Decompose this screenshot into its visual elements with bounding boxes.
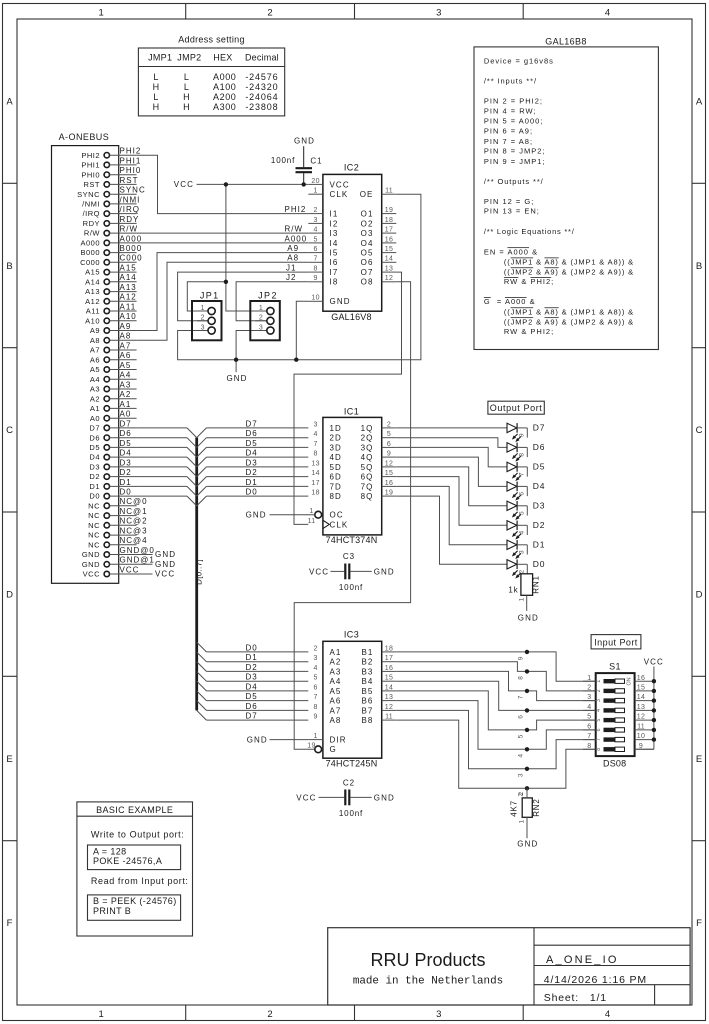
svg-text:7: 7	[313, 441, 317, 448]
svg-text:15: 15	[385, 675, 393, 682]
svg-text:PHI1: PHI1	[120, 156, 142, 165]
svg-text:2: 2	[313, 207, 317, 214]
svg-text:12: 12	[637, 714, 645, 721]
svg-text:3: 3	[313, 217, 317, 224]
wire IC3 B7 to RN2 pin 3 to S1 pin 7	[396, 710, 595, 768]
connector pin A4 / net A4	[90, 371, 137, 384]
svg-text:/** Inputs **/: /** Inputs **/	[484, 76, 537, 85]
svg-text:4: 4	[313, 431, 317, 438]
svg-text:VCC: VCC	[83, 570, 100, 579]
svg-text:5Q: 5Q	[361, 463, 374, 472]
wire bus exit to IC3 A1 / net D0	[197, 642, 309, 652]
connector pin PHI2 / net PHI2	[81, 147, 141, 160]
connector pin A7 / net A7	[90, 341, 137, 354]
power VCC flag and rail to IC2 pin20	[174, 180, 309, 189]
svg-text:B: B	[6, 261, 12, 272]
svg-text:9: 9	[518, 433, 525, 437]
connector pin D3 / net D3	[89, 458, 136, 471]
svg-text:6: 6	[518, 492, 525, 496]
svg-text:B: B	[696, 261, 702, 272]
svg-text:C000: C000	[120, 254, 143, 263]
svg-text:D7: D7	[89, 424, 100, 433]
connector pin A6 / net A6	[90, 351, 137, 364]
svg-text:1: 1	[518, 820, 525, 824]
resistor network RN1 pin 4	[517, 525, 527, 535]
svg-text:ON: ON	[627, 677, 633, 685]
svg-text:B5: B5	[362, 687, 374, 696]
svg-text:RW & PHI2;: RW & PHI2;	[504, 277, 554, 286]
svg-text:/** Outputs **/: /** Outputs **/	[484, 177, 544, 186]
connector pin RST / net RST	[84, 176, 139, 189]
connector pin NC / net NC@3	[88, 527, 147, 540]
connector pin NC / net NC@0	[88, 497, 147, 510]
svg-text:D[0..7]: D[0..7]	[194, 559, 203, 585]
connector pin A0 / net A0	[90, 410, 137, 423]
LED D2	[507, 520, 545, 539]
svg-text:D4: D4	[89, 453, 100, 462]
svg-text:74HCT374N: 74HCT374N	[326, 535, 378, 545]
svg-text:D0: D0	[533, 559, 545, 569]
svg-text:9: 9	[387, 451, 391, 458]
svg-text:A-ONEBUS: A-ONEBUS	[59, 132, 110, 142]
svg-text:2: 2	[267, 7, 272, 18]
connector pin A3 / net A3	[90, 380, 137, 393]
svg-text:GAL16V8: GAL16V8	[331, 312, 371, 322]
svg-text:Device = g16v8s: Device = g16v8s	[484, 56, 554, 65]
svg-text:PIN 7 = A8;: PIN 7 = A8;	[484, 137, 533, 146]
svg-text:GND@1: GND@1	[120, 556, 155, 565]
svg-text:100nf: 100nf	[271, 156, 295, 165]
svg-text:I6: I6	[330, 258, 339, 267]
svg-text:A000: A000	[120, 234, 143, 243]
svg-text:O1: O1	[361, 210, 374, 219]
svg-text:1: 1	[518, 597, 525, 601]
connector pin /IRQ / net /IRQ	[83, 205, 140, 218]
svg-text:D5: D5	[533, 462, 545, 472]
svg-text:VCC: VCC	[120, 565, 140, 574]
svg-text:2: 2	[387, 421, 391, 428]
svg-text:18: 18	[311, 490, 319, 497]
svg-text:I8: I8	[330, 278, 339, 287]
connector pin A15 / net A15	[85, 264, 137, 277]
connector pin D6 / net D6	[89, 429, 136, 442]
wire A9 net	[137, 244, 309, 331]
svg-text:((JMP2 & A9) & (JMP2 & A9)) &: ((JMP2 & A9) & (JMP2 & A9)) &	[504, 267, 634, 276]
svg-text:17: 17	[311, 480, 319, 487]
svg-text:RN1: RN1	[532, 575, 541, 593]
svg-text:15: 15	[385, 470, 393, 477]
svg-text:3: 3	[436, 1009, 441, 1020]
svg-text:D7: D7	[533, 423, 545, 433]
svg-text:14: 14	[311, 470, 319, 477]
svg-text:R/W: R/W	[84, 229, 101, 238]
svg-text:D0: D0	[89, 492, 100, 501]
wire bus exit to IC3 A3 / net D2	[197, 662, 309, 672]
svg-text:O8: O8	[361, 278, 374, 287]
svg-text:6: 6	[518, 715, 525, 719]
svg-text:7D: 7D	[330, 482, 342, 491]
LED D4	[507, 481, 545, 500]
svg-text:A6: A6	[90, 355, 100, 364]
svg-text:((JMP1 & A8) & (JMP1 & A8)) &: ((JMP1 & A8) & (JMP1 & A8)) &	[504, 307, 634, 316]
wire G net (GAL pin12 to IC3 G)	[294, 282, 410, 750]
svg-text:A5: A5	[330, 687, 342, 696]
svg-text:PIN 6 = A9;: PIN 6 = A9;	[484, 127, 533, 136]
svg-text:3: 3	[313, 655, 317, 662]
svg-text:D4: D4	[246, 682, 258, 691]
svg-text:L: L	[153, 72, 158, 82]
svg-text:A000: A000	[213, 72, 236, 82]
svg-text:13: 13	[637, 704, 645, 711]
svg-text:11: 11	[385, 188, 393, 195]
connector pin PHI0 / net PHI0	[81, 166, 141, 179]
svg-text:A000: A000	[285, 234, 308, 243]
svg-text:D7: D7	[246, 419, 258, 428]
svg-text:3: 3	[587, 694, 591, 701]
svg-text:PIN 13 = EN;: PIN 13 = EN;	[484, 207, 540, 216]
svg-text:BASIC EXAMPLE: BASIC EXAMPLE	[96, 805, 173, 815]
svg-text:17: 17	[385, 655, 393, 662]
svg-text:D2: D2	[533, 520, 545, 530]
connector pin A14 / net A14	[85, 273, 137, 286]
svg-text:NC: NC	[88, 501, 100, 510]
svg-text:5: 5	[518, 734, 525, 738]
junction VCC rail	[224, 182, 228, 186]
svg-text:4: 4	[587, 704, 591, 711]
wire IC3 B8 to RN2 pin 2 to S1 pin 8	[396, 720, 595, 788]
svg-text:4: 4	[518, 531, 525, 535]
svg-text:DS08: DS08	[603, 759, 626, 769]
connector pin D5 / net D5	[89, 439, 136, 452]
svg-text:C000: C000	[80, 258, 100, 267]
resistor network RN2 pin 7 junction	[518, 689, 530, 700]
junction C1/VCC	[302, 182, 306, 186]
svg-text:D1: D1	[246, 478, 258, 487]
svg-text:NC@1: NC@1	[120, 507, 148, 516]
wire D5 connector to bus entry	[137, 447, 197, 457]
svg-text:3: 3	[259, 324, 263, 331]
svg-text:A11: A11	[86, 307, 100, 316]
svg-text:D2: D2	[120, 468, 132, 477]
svg-text:1Q: 1Q	[361, 424, 374, 433]
svg-text:4: 4	[313, 227, 317, 234]
svg-text:((JMP2 & A9) & (JMP2 & A9)) &: ((JMP2 & A9) & (JMP2 & A9)) &	[504, 317, 634, 326]
svg-text:2Q: 2Q	[361, 434, 374, 443]
connector pin D2 / net D2	[89, 468, 136, 481]
svg-text:GND: GND	[294, 136, 315, 145]
svg-text:A13: A13	[120, 283, 137, 292]
wire IC1 8Q to LED D0	[396, 496, 507, 564]
svg-text:13: 13	[385, 266, 393, 273]
IC IC1 74HCT374N	[308, 407, 397, 545]
svg-text:R/W: R/W	[120, 225, 139, 234]
svg-text:O7: O7	[361, 268, 374, 277]
svg-text:I7: I7	[330, 268, 339, 277]
svg-text:JMP1: JMP1	[148, 53, 172, 63]
svg-text:D4: D4	[120, 449, 132, 458]
svg-text:B4: B4	[362, 677, 374, 686]
svg-text:PRINT B: PRINT B	[93, 906, 131, 916]
svg-text:RW & PHI2;: RW & PHI2;	[504, 327, 554, 336]
svg-text:H: H	[183, 92, 190, 102]
svg-text:74HCT245N: 74HCT245N	[326, 759, 378, 769]
svg-text:2: 2	[201, 315, 205, 322]
svg-text:RST: RST	[84, 180, 101, 189]
svg-text:OE: OE	[360, 190, 374, 199]
svg-text:I4: I4	[330, 239, 339, 248]
svg-text:7: 7	[596, 738, 602, 741]
resistor network RN1 pin 5	[517, 506, 527, 516]
svg-text:RRU Products: RRU Products	[370, 950, 485, 970]
svg-text:A9: A9	[287, 244, 299, 253]
wire bus to IC1 pin 1D / net D1	[197, 478, 309, 496]
svg-text:E: E	[6, 754, 12, 765]
svg-text:B000: B000	[80, 248, 100, 257]
connector pin C000 / net C000	[80, 254, 143, 267]
svg-text:6: 6	[387, 441, 391, 448]
svg-text:6: 6	[596, 728, 602, 731]
svg-text:1: 1	[99, 7, 104, 18]
svg-text:2: 2	[518, 570, 525, 574]
svg-text:D3: D3	[89, 463, 100, 472]
svg-text:A12: A12	[85, 297, 100, 306]
svg-text:11: 11	[385, 714, 393, 721]
svg-text:2: 2	[596, 689, 602, 692]
BASIC example note	[77, 802, 193, 936]
Output Port label	[488, 401, 544, 414]
svg-text:A7: A7	[120, 341, 132, 350]
svg-text:RDY: RDY	[83, 219, 100, 228]
svg-text:NC: NC	[88, 531, 100, 540]
svg-text:5: 5	[518, 511, 525, 515]
connector pin RDY / net RDY	[83, 215, 140, 228]
svg-text:A100: A100	[213, 82, 236, 92]
capacitor C2 100nf	[296, 779, 395, 818]
svg-text:7: 7	[587, 733, 591, 740]
svg-text:A200: A200	[213, 92, 236, 102]
svg-text:A300: A300	[213, 102, 236, 112]
svg-text:2: 2	[587, 685, 591, 692]
svg-text:5: 5	[596, 719, 602, 722]
connector pin NC / net NC@4	[88, 536, 147, 549]
svg-text:GND: GND	[374, 568, 395, 577]
svg-text:PIN 9 = JMP1;: PIN 9 = JMP1;	[484, 157, 546, 166]
junction VCC jumpers	[224, 280, 228, 284]
wire IC1 7Q to LED D1	[396, 486, 507, 544]
svg-text:PHI0: PHI0	[81, 170, 100, 179]
LED D3	[507, 501, 545, 520]
svg-text:VCC: VCC	[174, 180, 194, 189]
svg-text:A0: A0	[90, 414, 100, 423]
svg-text:GND: GND	[82, 560, 100, 569]
resistor network RN1 1k	[508, 574, 540, 611]
wire bus to IC1 pin 0D / net D0	[197, 488, 309, 506]
svg-text:PHI0: PHI0	[120, 166, 142, 175]
svg-text:6: 6	[313, 246, 317, 253]
svg-text:A4: A4	[330, 677, 342, 686]
svg-text:D6: D6	[533, 442, 545, 452]
connector pin PHI1 / net PHI1	[81, 156, 141, 169]
svg-text:D1: D1	[120, 478, 132, 487]
svg-text:B000: B000	[120, 244, 143, 253]
svg-text:15: 15	[637, 685, 645, 692]
svg-text:7Q: 7Q	[361, 482, 374, 491]
svg-text:PHI2: PHI2	[120, 147, 142, 156]
wire A8 net	[137, 254, 309, 341]
GAL16B8 equations note	[474, 37, 658, 350]
svg-text:A2: A2	[330, 658, 342, 667]
svg-text:A5: A5	[90, 365, 100, 374]
svg-text:GND: GND	[246, 511, 267, 520]
svg-text:D1: D1	[246, 653, 258, 662]
connector pin NC / net NC@2	[88, 517, 147, 530]
svg-text:((JMP1 & A8) & (JMP1 & A8)) &: ((JMP1 & A8) & (JMP1 & A8)) &	[504, 258, 634, 267]
svg-text:D2: D2	[246, 663, 258, 672]
svg-text:GND: GND	[226, 374, 247, 383]
connector pin A12 / net A12	[85, 293, 137, 306]
svg-text:D3: D3	[246, 458, 258, 467]
svg-text:D3: D3	[120, 458, 132, 467]
svg-text:8: 8	[596, 748, 602, 751]
svg-text:Decimal: Decimal	[245, 53, 279, 63]
wire IC1 3Q to LED D5	[396, 447, 507, 467]
svg-text:I1: I1	[330, 210, 339, 219]
svg-text:5: 5	[587, 714, 591, 721]
LED D7	[507, 423, 545, 442]
svg-text:O5: O5	[361, 249, 374, 258]
wire IC1 5Q to LED D3	[396, 467, 507, 506]
svg-text:13: 13	[385, 694, 393, 701]
svg-text:A8: A8	[120, 332, 132, 341]
resistor network RN2 pin 2 junction	[518, 786, 530, 797]
svg-text:NC@0: NC@0	[120, 497, 148, 506]
svg-text:1: 1	[596, 680, 602, 683]
wire IC1 2Q to LED D6	[396, 438, 507, 448]
connector pin D0 / net D0	[89, 488, 136, 501]
wire bus to IC1 pin 4D / net D4	[197, 449, 309, 467]
svg-text:VCC: VCC	[330, 180, 350, 189]
power VCC rail at S1	[635, 658, 664, 750]
svg-text:2: 2	[267, 1009, 272, 1020]
LED D1	[507, 540, 545, 559]
connector pin A13 / net A13	[85, 283, 137, 296]
connector pin NC / net NC@1	[88, 507, 147, 520]
wire bus exit to IC3 A4 / net D3	[197, 671, 309, 681]
svg-text:NC: NC	[88, 511, 100, 520]
svg-text:JP2: JP2	[258, 291, 278, 301]
wire bus exit to IC3 A6 / net D5	[197, 691, 309, 701]
svg-text:SYNC: SYNC	[77, 190, 100, 199]
capacitor C1 100nf	[271, 136, 323, 184]
svg-text:IC3: IC3	[344, 630, 359, 640]
svg-text:1D: 1D	[330, 424, 342, 433]
svg-text:1: 1	[259, 305, 263, 312]
svg-text:PHI2: PHI2	[285, 205, 307, 214]
svg-text:GND: GND	[155, 560, 176, 569]
svg-text:VCC: VCC	[644, 658, 664, 667]
svg-text:A = 128: A = 128	[93, 846, 127, 856]
wire J2 net (GAL pin9 to JP2 pin2)	[236, 273, 308, 321]
svg-text:8: 8	[587, 743, 591, 750]
svg-text:J1: J1	[286, 264, 296, 273]
connector pin GND / net GND@1	[82, 556, 176, 569]
junction GND at IC2 pin10	[294, 358, 298, 362]
svg-text:A1: A1	[330, 648, 342, 657]
power GND flag at IC1 OC	[246, 511, 315, 520]
svg-text:19: 19	[385, 490, 393, 497]
svg-text:A000: A000	[80, 239, 100, 248]
svg-text:D5: D5	[89, 443, 100, 452]
svg-text:3: 3	[518, 773, 525, 777]
svg-text:14: 14	[637, 694, 645, 701]
svg-text:A3: A3	[90, 385, 100, 394]
svg-text:EN = A000 &: EN = A000 &	[484, 247, 538, 256]
svg-text:A4: A4	[90, 375, 100, 384]
wire R/W net	[137, 225, 309, 234]
svg-text:F: F	[7, 918, 13, 929]
svg-text:5: 5	[313, 236, 317, 243]
wire EN net (GAL pin13 to IC1 CLK)	[294, 272, 402, 524]
svg-text:GND: GND	[518, 613, 539, 622]
svg-text:I3: I3	[330, 229, 339, 238]
svg-text:A3: A3	[330, 667, 342, 676]
svg-text:8D: 8D	[330, 492, 342, 501]
svg-text:VCC: VCC	[155, 570, 175, 579]
wire D0 connector to bus entry	[137, 496, 197, 506]
wire IC3 B1 to RN2 pin 9 to S1 pin 1	[396, 652, 595, 681]
jumper JP2	[250, 291, 279, 341]
svg-text:D6: D6	[246, 429, 258, 438]
svg-text:C3: C3	[343, 552, 355, 561]
svg-text:A7: A7	[330, 706, 342, 715]
svg-text:GND: GND	[82, 550, 100, 559]
wire D1 connector to bus entry	[137, 486, 197, 496]
svg-text:R/W: R/W	[285, 225, 304, 234]
svg-text:D: D	[6, 590, 13, 601]
IC IC3 74HCT245N	[307, 630, 396, 769]
svg-text:8: 8	[313, 704, 317, 711]
svg-text:NC@3: NC@3	[120, 527, 148, 536]
svg-text:H: H	[183, 102, 190, 112]
svg-text:A12: A12	[120, 293, 137, 302]
wire IC1 6Q to LED D2	[396, 477, 507, 526]
LED D0	[507, 559, 545, 578]
svg-text:/IRQ: /IRQ	[120, 205, 140, 214]
svg-text:J2: J2	[286, 273, 296, 282]
capacitor C3 100nf	[309, 552, 395, 592]
svg-text:12: 12	[385, 460, 393, 467]
svg-text:VCC: VCC	[309, 568, 329, 577]
svg-text:O4: O4	[361, 239, 374, 248]
svg-text:B6: B6	[362, 697, 374, 706]
svg-text:16: 16	[385, 665, 393, 672]
svg-text:GND: GND	[330, 297, 351, 306]
svg-text:11: 11	[637, 724, 645, 731]
svg-text:C2: C2	[343, 779, 355, 788]
svg-text:9: 9	[518, 656, 525, 660]
svg-text:I5: I5	[330, 249, 339, 258]
resistor network RN2 pin 9 junction	[518, 650, 530, 661]
resistor network RN1 pin 8	[517, 447, 527, 457]
svg-text:17: 17	[385, 227, 393, 234]
svg-text:D: D	[696, 590, 703, 601]
svg-text:1k: 1k	[508, 586, 518, 595]
svg-text:A13: A13	[85, 287, 100, 296]
svg-text:D0: D0	[246, 488, 258, 497]
svg-text:D5: D5	[120, 439, 132, 448]
svg-text:F: F	[696, 918, 702, 929]
svg-text:Read from Input port:: Read from Input port:	[91, 876, 189, 886]
